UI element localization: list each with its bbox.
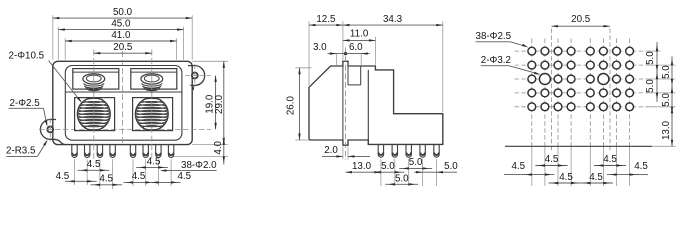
- svg-text:5.0: 5.0: [645, 79, 656, 93]
- svg-text:41.0: 41.0: [111, 30, 131, 41]
- svg-text:20.5: 20.5: [571, 14, 591, 25]
- svg-text:2-Φ10.5: 2-Φ10.5: [9, 51, 45, 62]
- svg-text:13.0: 13.0: [661, 120, 672, 140]
- svg-text:4.5: 4.5: [559, 172, 573, 183]
- svg-text:12.5: 12.5: [316, 14, 336, 25]
- svg-text:2-Φ2.5: 2-Φ2.5: [10, 98, 41, 109]
- svg-text:26.0: 26.0: [285, 96, 296, 116]
- svg-text:6.0: 6.0: [349, 42, 363, 53]
- svg-text:45.0: 45.0: [111, 18, 131, 29]
- svg-text:29.0: 29.0: [214, 94, 225, 114]
- svg-text:2.0: 2.0: [324, 145, 338, 156]
- svg-text:38-Φ2.0: 38-Φ2.0: [181, 160, 217, 171]
- svg-text:4.5: 4.5: [56, 171, 70, 182]
- svg-text:11.0: 11.0: [350, 29, 369, 40]
- svg-text:4.5: 4.5: [634, 161, 648, 172]
- svg-text:13.0: 13.0: [352, 161, 372, 172]
- svg-text:34.3: 34.3: [383, 14, 403, 25]
- svg-text:4.5: 4.5: [87, 159, 101, 170]
- svg-text:5.0: 5.0: [645, 51, 656, 65]
- svg-text:4.5: 4.5: [132, 171, 146, 182]
- svg-text:5.0: 5.0: [661, 65, 672, 79]
- svg-text:4.5: 4.5: [99, 174, 113, 185]
- svg-text:38-Φ2.5: 38-Φ2.5: [476, 31, 512, 42]
- svg-text:4.0: 4.0: [213, 140, 224, 154]
- svg-text:4.5: 4.5: [603, 154, 617, 165]
- svg-text:4.5: 4.5: [545, 154, 559, 165]
- svg-text:50.0: 50.0: [113, 7, 133, 18]
- svg-text:5.0: 5.0: [444, 161, 458, 172]
- svg-text:4.5: 4.5: [147, 156, 161, 167]
- svg-text:5.0: 5.0: [381, 161, 395, 172]
- svg-text:4.5: 4.5: [177, 171, 191, 182]
- svg-text:4.5: 4.5: [511, 161, 525, 172]
- svg-text:4.5: 4.5: [589, 172, 603, 183]
- svg-text:2-R3.5: 2-R3.5: [6, 145, 36, 156]
- svg-text:5.0: 5.0: [409, 157, 423, 168]
- svg-text:5.0: 5.0: [661, 93, 672, 107]
- svg-text:20.5: 20.5: [113, 42, 133, 53]
- svg-text:5.0: 5.0: [395, 173, 409, 184]
- svg-text:2-Φ3.2: 2-Φ3.2: [481, 55, 511, 66]
- svg-text:3.0: 3.0: [313, 42, 327, 53]
